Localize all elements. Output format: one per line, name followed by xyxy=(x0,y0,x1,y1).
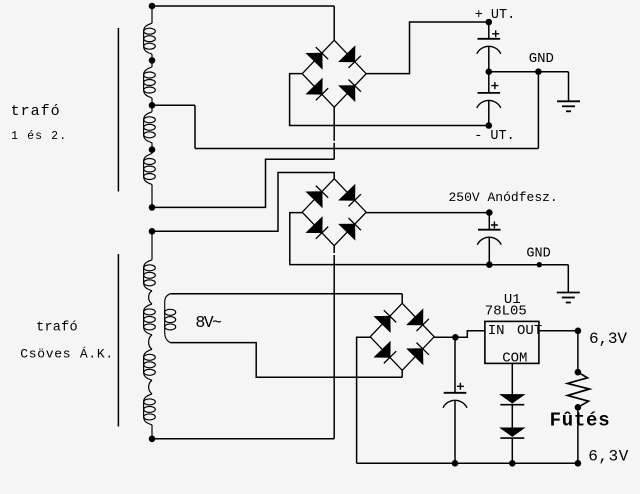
svg-text:trafó: trafó xyxy=(11,103,60,120)
svg-text:OUT: OUT xyxy=(517,323,542,339)
svg-text:6,3V: 6,3V xyxy=(589,330,627,348)
svg-text:Fûtés: Fûtés xyxy=(550,410,610,432)
svg-text:+ UT.: + UT. xyxy=(475,8,516,23)
svg-text:6,3V: 6,3V xyxy=(588,448,628,466)
svg-text:250V Anódfesz.: 250V Anódfesz. xyxy=(449,190,558,205)
svg-text:- UT.: - UT. xyxy=(474,129,515,144)
svg-text:GND: GND xyxy=(529,51,554,67)
svg-text:8V~: 8V~ xyxy=(195,313,222,332)
svg-text:GND: GND xyxy=(526,246,550,261)
svg-text:78L05: 78L05 xyxy=(485,304,527,320)
svg-text:COM: COM xyxy=(502,351,527,367)
svg-text:IN: IN xyxy=(488,323,505,339)
svg-text:1 és 2.: 1 és 2. xyxy=(11,130,66,143)
svg-text:Csöves Á.K.: Csöves Á.K. xyxy=(20,347,113,362)
svg-text:trafó: trafó xyxy=(36,321,78,336)
